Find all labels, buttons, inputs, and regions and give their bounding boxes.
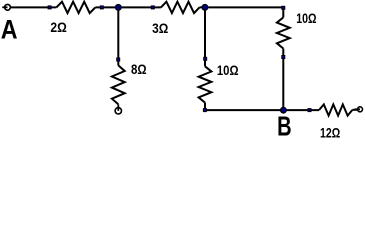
svg-text:A: A	[1, 14, 18, 44]
svg-text:2Ω: 2Ω	[50, 20, 67, 35]
svg-text:10Ω: 10Ω	[296, 11, 316, 26]
svg-text:8Ω: 8Ω	[131, 62, 147, 77]
svg-text:10Ω: 10Ω	[217, 63, 239, 78]
svg-text:B: B	[277, 111, 292, 139]
svg-text:12Ω: 12Ω	[320, 125, 340, 138]
svg-text:3Ω: 3Ω	[152, 21, 168, 36]
